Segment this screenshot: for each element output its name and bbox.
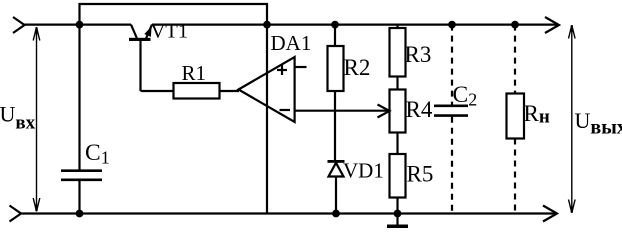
output terminal arrow bottom-right: [543, 206, 557, 222]
svg-text:C1: C1: [85, 140, 110, 168]
output terminal arrow top-right: [545, 17, 559, 33]
capacitor C1 bottom lead: [78, 181, 80, 214]
node ground junction: [394, 210, 402, 218]
wire top rail output segment: [152, 24, 557, 26]
wire collector lead VT1: [131, 25, 137, 38]
wire VD1 anode to bottom rail: [335, 177, 337, 214]
node VD1 bottom: [332, 210, 340, 218]
input terminal arrow top-left: [13, 17, 25, 33]
capacitor C2 bottom dashed lead: [451, 117, 453, 214]
load Rn bottom dashed lead: [514, 139, 516, 214]
zener diode VD1 cathode bar: [328, 160, 345, 163]
wiper arrowhead into R4: [378, 105, 390, 118]
transistor VT1 emitter lead with arrow: [144, 25, 152, 38]
svg-text:R1: R1: [182, 61, 207, 85]
op-amp plus sign: [277, 65, 287, 75]
dimension line U_vx: [33, 27, 40, 211]
svg-text:Rн: Rн: [524, 101, 550, 128]
svg-text:Uвх: Uвх: [0, 102, 36, 134]
capacitor C1 plates: [61, 171, 102, 180]
svg-text:R4: R4: [406, 97, 433, 122]
wire R5 to bottom rail: [396, 198, 398, 214]
transistor VT1 base bar: [129, 38, 151, 41]
resistor R3: [390, 28, 406, 77]
zener diode VD1 triangle: [329, 163, 344, 177]
load resistor Rn: [507, 94, 525, 139]
svg-text:DA1: DA1: [271, 31, 312, 55]
op-amp DA1 triangle: [239, 57, 295, 122]
resistor R5: [390, 154, 406, 198]
wire DA1 vertical to bottom rail: [266, 25, 268, 214]
svg-text:C2: C2: [453, 82, 478, 110]
node DA1 top junction: [263, 21, 271, 29]
op-amp plus input stub: [295, 66, 307, 68]
node C1 bottom: [76, 210, 84, 218]
wire R4 to R5: [396, 133, 398, 155]
dimension line U_vyx: [569, 25, 576, 213]
wire R2 top lead: [334, 25, 336, 46]
wire base to R1: [141, 90, 174, 92]
wire R3 to R4: [396, 77, 398, 90]
svg-text:R2: R2: [344, 55, 371, 80]
svg-text:Uвых: Uвых: [575, 108, 622, 139]
node C2 top: [448, 21, 456, 29]
wire top rail input segment: [24, 24, 131, 26]
wire bottom rail: [21, 212, 557, 214]
load Rn top dashed lead: [514, 25, 516, 94]
capacitor C2 plates: [434, 106, 468, 116]
resistor R2: [328, 46, 344, 91]
capacitor C1 top lead: [78, 25, 80, 170]
wire R1 to op-amp output: [220, 90, 240, 92]
wire R2 to VD1: [334, 91, 336, 161]
svg-text:VD1: VD1: [343, 159, 384, 183]
resistor R1: [174, 83, 220, 99]
wire op-amp minus input to R4 wiper: [295, 110, 388, 112]
input terminal arrow bottom-left: [10, 206, 22, 222]
wire R3 top lead: [396, 25, 398, 28]
node Rn top: [511, 21, 519, 29]
ground symbol: [387, 214, 408, 229]
svg-text:R5: R5: [407, 162, 434, 187]
potentiometer R4: [390, 90, 406, 133]
op-amp minus sign: [280, 109, 291, 111]
capacitor C2 top dashed lead: [451, 25, 453, 105]
wire VT1 base lead down: [139, 41, 141, 91]
node input C1 junction: [76, 21, 84, 29]
node R2 top: [331, 21, 339, 29]
svg-text:R3: R3: [405, 42, 432, 67]
wire bypass top: [80, 4, 268, 25]
